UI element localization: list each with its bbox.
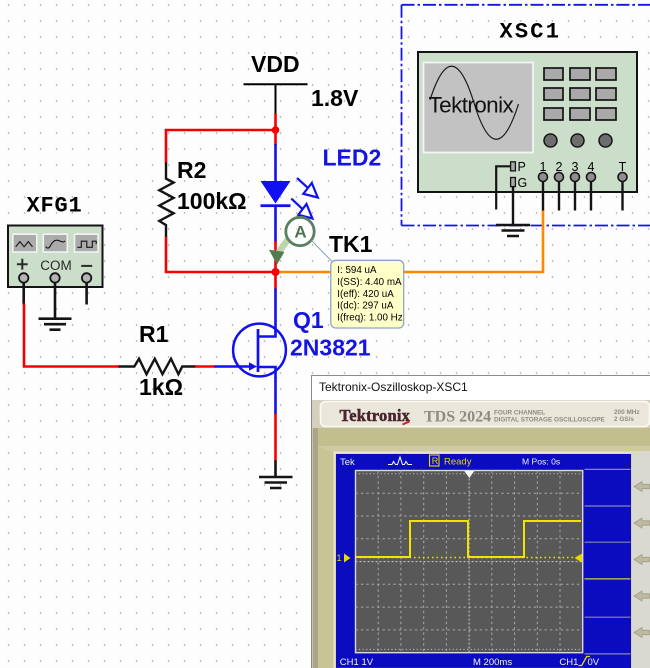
- pin stub 4: [590, 182, 592, 211]
- XFG1 plus label: [17, 259, 28, 270]
- svg-text:R: R: [432, 456, 439, 466]
- svg-text:I: 594 uA: I: 594 uA: [337, 265, 377, 276]
- XFG1 triangle-wave button: [13, 234, 37, 252]
- svg-text:2 GS/s: 2 GS/s: [614, 416, 634, 423]
- bezel arrow 3: [634, 555, 650, 565]
- pulse icon: [388, 457, 412, 465]
- svg-text:TDS 2024: TDS 2024: [424, 409, 491, 426]
- logo plate: [321, 402, 650, 427]
- XSC1 terminal 4: [587, 173, 596, 182]
- trigger slope symbol: [579, 657, 590, 666]
- wire red into node B: [274, 241, 277, 272]
- bottom screen separator: [336, 667, 584, 668]
- svg-text:LED2: LED2: [323, 144, 382, 170]
- XSC1 P connector: [511, 162, 516, 171]
- bezel top shade: [313, 428, 650, 446]
- XFG1 square-wave button: [75, 234, 99, 252]
- menu separators: [585, 469, 631, 654]
- XSC1 pin labels 1 2 3 4 T: [540, 160, 627, 174]
- svg-text:FOUR CHANNEL: FOUR CHANNEL: [494, 410, 545, 417]
- wire red XFG1 plus to R1: [24, 304, 120, 367]
- node B junction dot: [272, 268, 280, 276]
- menu separator active: [585, 578, 631, 580]
- graticule dashed lines: [356, 471, 583, 653]
- XSC1 buttons 3x3: [544, 68, 616, 120]
- probe TK1 circle A: [286, 217, 314, 245]
- resistor R2: [159, 163, 173, 238]
- LED light arrow 2: [291, 199, 312, 219]
- bezel highlight diagonal: [318, 446, 336, 668]
- XSC1 terminal T: [618, 173, 627, 182]
- svg-text:I(eff): 420 uA: I(eff): 420 uA: [337, 289, 394, 300]
- svg-text:100kΩ: 100kΩ: [177, 188, 247, 214]
- XSC1 display screen: [424, 63, 534, 153]
- wire blue gate: [215, 365, 250, 368]
- wire black to ground: [274, 461, 277, 478]
- svg-text:COM: COM: [40, 258, 72, 273]
- transistor Q1 gate arrow: [249, 362, 257, 370]
- XSC1 terminal 2: [555, 173, 564, 182]
- svg-text:G: G: [518, 176, 528, 190]
- wire red node A to left rail: [166, 130, 277, 164]
- XSC1 knob 3: [599, 134, 612, 147]
- svg-text:M 200ms: M 200ms: [473, 657, 512, 668]
- pin stub 1: [542, 182, 544, 211]
- XSC1 knob 2: [571, 134, 584, 147]
- XSC1 screen sine curve: [430, 66, 519, 139]
- resistor R1: [119, 359, 197, 375]
- square wave trace: [356, 521, 582, 557]
- svg-text:2N3821: 2N3821: [290, 334, 371, 360]
- scope window title bar: [312, 376, 650, 400]
- function generator XFG1 body: [8, 226, 103, 288]
- svg-text:TK1: TK1: [329, 231, 373, 257]
- pin stub T: [621, 182, 623, 211]
- svg-text:DIGITAL STORAGE OSCILLOSCOPE: DIGITAL STORAGE OSCILLOSCOPE: [494, 417, 606, 424]
- graticule area: [356, 471, 583, 653]
- right trigger marker: [575, 554, 583, 563]
- transistor Q1 source tap: [258, 367, 276, 378]
- wire blue to Q1 drain: [258, 289, 276, 337]
- svg-text:I(freq): 1.00 Hz: I(freq): 1.00 Hz: [337, 312, 402, 323]
- probe TK1 arrow shaft: [279, 238, 290, 253]
- wire blue LED cathode down: [274, 207, 277, 242]
- transistor Q1 channel bar: [257, 329, 260, 372]
- svg-text:R2: R2: [177, 157, 206, 183]
- transistor Q1 circle: [233, 324, 286, 377]
- SCOPE WINDOW: [311, 375, 650, 668]
- svg-text:XFG1: XFG1: [27, 193, 83, 218]
- svg-text:1: 1: [337, 553, 342, 563]
- pin stub plus: [22, 283, 25, 305]
- power symbol VDD: [244, 84, 308, 114]
- XFG1 sine-wave button: [43, 234, 67, 252]
- svg-text:A: A: [294, 223, 306, 242]
- svg-text:200 MHz: 200 MHz: [614, 409, 640, 416]
- tooltip leader line: [312, 241, 333, 262]
- XSC1 knob 1: [544, 134, 557, 147]
- bezel arrow 4: [634, 591, 650, 601]
- pin stub 3: [574, 182, 576, 211]
- bezel highlight: [335, 453, 633, 668]
- wire red R2 bottom to node B: [166, 237, 276, 272]
- XFG1 terminal COM: [50, 273, 59, 282]
- svg-text:CH1: CH1: [559, 657, 578, 668]
- bezel bevel wedge left: [313, 446, 650, 668]
- top center marker: [464, 471, 474, 478]
- svg-text:I(dc): 297 uA: I(dc): 297 uA: [337, 301, 394, 312]
- svg-text:VDD: VDD: [251, 51, 300, 77]
- svg-text:Tektronix: Tektronix: [429, 93, 515, 118]
- bezel arrow 1: [634, 482, 650, 492]
- tooltip box TK1 readings: [331, 260, 404, 328]
- selection box XSC1: [402, 5, 650, 226]
- svg-text:CH1 1V: CH1 1V: [340, 657, 374, 668]
- pin stub minus: [85, 283, 88, 305]
- ground XSC1 G: [496, 225, 530, 236]
- ground Q1 source: [259, 477, 293, 488]
- wire G to ground: [512, 187, 514, 225]
- XFG1 minus label: [81, 265, 92, 267]
- pin stub COM: [54, 283, 57, 319]
- svg-text:Ready: Ready: [444, 457, 472, 468]
- LED light arrow 1: [297, 178, 318, 198]
- scope window decorations: [312, 376, 650, 668]
- bezel arrow 2: [634, 518, 650, 528]
- svg-text:1kΩ: 1kΩ: [139, 374, 183, 400]
- wire blue Q1 source down: [274, 377, 277, 415]
- XSC1 G connector: [511, 178, 516, 187]
- svg-text:Tek: Tek: [340, 457, 355, 468]
- XSC1 terminal 1: [539, 173, 548, 182]
- graticule edge ticks: [356, 474, 583, 650]
- pin stub 2: [558, 182, 560, 211]
- LED D2: [261, 181, 291, 207]
- wire red below node B: [274, 272, 277, 290]
- wire red Q1 source down: [274, 414, 277, 462]
- wire P probe: [496, 166, 510, 209]
- svg-text:XSC1: XSC1: [500, 19, 562, 44]
- trace baseline dotted: [356, 557, 583, 559]
- svg-text:Q1: Q1: [293, 307, 324, 333]
- XSC1 terminal 3: [571, 173, 580, 182]
- wire red R1 to gate net: [195, 365, 216, 368]
- red accent slash: [403, 422, 410, 425]
- oscilloscope XSC1 body: [418, 52, 637, 192]
- R ready box: [430, 455, 440, 466]
- node A junction dot: [272, 126, 280, 134]
- wire red below node A: [274, 129, 277, 145]
- bezel arrow 5: [634, 628, 650, 638]
- wire blue to LED anode: [274, 144, 277, 182]
- ground XFG1 COM: [39, 319, 72, 330]
- scope CRT screen: [336, 454, 631, 668]
- svg-text:P: P: [518, 160, 526, 174]
- svg-text:M Pos: 0s: M Pos: 0s: [522, 457, 560, 467]
- wire red VDD to node A: [274, 114, 277, 131]
- svg-text:1.8V: 1.8V: [311, 85, 359, 111]
- XFG1 terminal minus: [82, 273, 91, 282]
- svg-text:R1: R1: [139, 321, 169, 347]
- right strip: [632, 451, 650, 668]
- scope header band: [312, 400, 650, 428]
- svg-text:0V: 0V: [588, 657, 600, 668]
- svg-text:I(SS): 4.40 mA: I(SS): 4.40 mA: [337, 277, 402, 288]
- svg-text:Tektronix: Tektronix: [340, 406, 411, 425]
- bezel left shadow strip: [313, 428, 318, 668]
- XFG1 terminal plus: [19, 273, 28, 282]
- wire orange node B to XSC1 pin1: [279, 210, 543, 273]
- graticule center lines: [356, 471, 583, 653]
- probe TK1 arrowhead: [269, 250, 284, 265]
